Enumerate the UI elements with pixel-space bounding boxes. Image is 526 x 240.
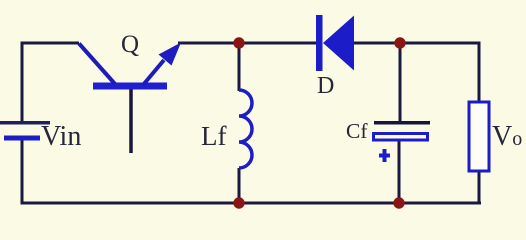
capacitor Cf top plate	[374, 121, 430, 125]
wire: top-left horizontal (corner to transistor collector lead)	[22, 42, 79, 45]
wire: diode anode to right junction	[354, 42, 479, 45]
battery Vin bottom plate (negative, short thick)	[4, 136, 40, 141]
capacitor Cf plus polarity mark	[379, 149, 390, 162]
transistor Q base bar	[93, 83, 167, 90]
wire: Cf top lead	[399, 43, 402, 121]
node: junction dot bottom Cf	[393, 197, 404, 208]
transistor Q arrowhead	[159, 43, 182, 66]
node: junction dot top-left (switch/diode/Lf)	[233, 37, 244, 48]
svg-text:D: D	[317, 73, 334, 99]
transistor Q collector lead (diagonal from top wire to bar)	[79, 44, 115, 85]
battery Vin top plate (positive, long)	[0, 121, 50, 125]
wire: right vertical lower (Vo bottom to bottom rail)	[478, 172, 481, 203]
capacitor Cf bottom plate (hollow)	[374, 134, 428, 141]
resistor Vo body	[469, 102, 489, 171]
wire: left vertical upper (corner down to battery top plate)	[21, 42, 24, 123]
wire: top middle (arrow tip to diode cathode bar)	[178, 42, 316, 45]
wire: Lf top lead	[238, 43, 241, 91]
wire: left vertical lower (battery bottom plate down to bottom rail)	[21, 140, 24, 203]
svg-text:Vin: Vin	[41, 121, 81, 152]
wire: Lf bottom lead	[238, 168, 241, 203]
transistor Q base drive lead (vertical, open end)	[129, 90, 133, 154]
wire: top-right horizontal + right vertical upper (to Vo top)	[478, 42, 481, 102]
node: junction dot top-right (diode/Cf/Vo)	[394, 37, 405, 48]
diode D triangle	[323, 16, 354, 71]
svg-text:Lf: Lf	[201, 121, 226, 151]
wire: Cf bottom lead	[398, 141, 401, 203]
node: junction dot bottom Lf	[233, 197, 244, 208]
transistor Q emitter lead with arrow	[143, 60, 164, 85]
diode D cathode bar	[316, 15, 323, 71]
svg-text:Cf: Cf	[346, 119, 368, 143]
inductor Lf coil	[239, 90, 252, 168]
svg-text:Q: Q	[121, 31, 139, 58]
wire: bottom rail	[21, 202, 482, 205]
